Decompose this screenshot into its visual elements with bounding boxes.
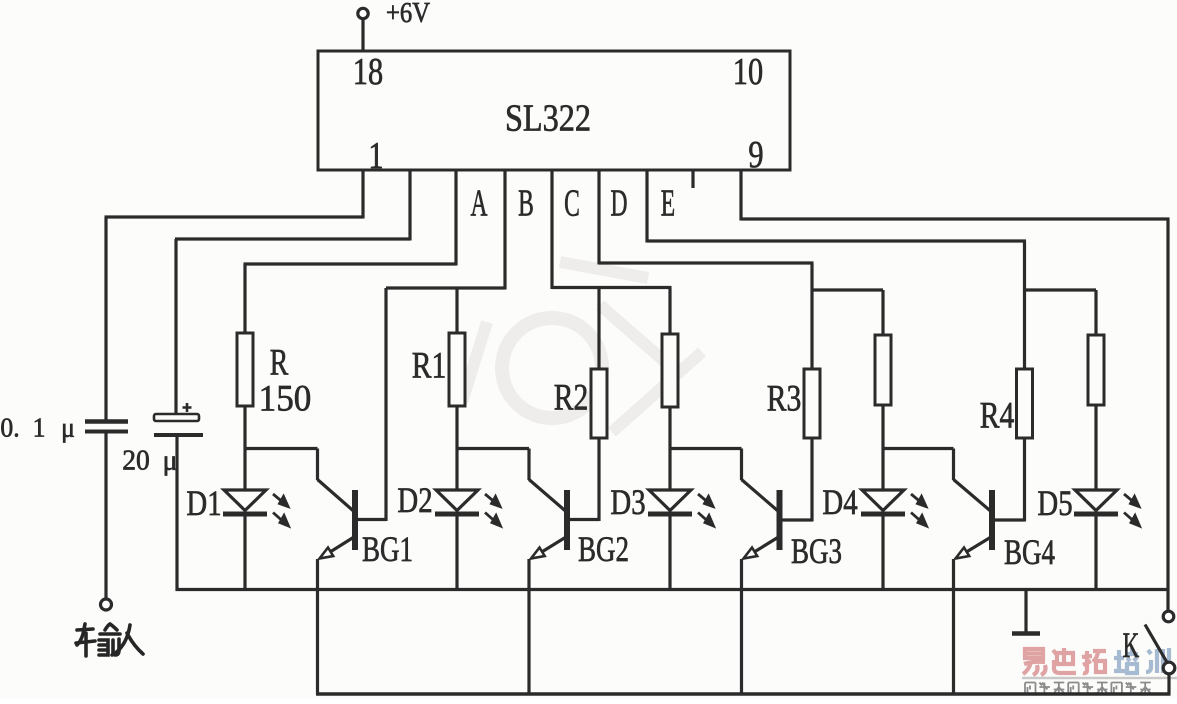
svg-text:0.: 0. — [0, 413, 19, 443]
transistor BG3 base wire — [783, 518, 813, 521]
wire R bottom to node — [243, 406, 246, 491]
switch K blade — [1145, 625, 1167, 662]
capacitor C2 20u bottom plate — [154, 433, 203, 437]
resistor R4 top wire — [1023, 241, 1026, 369]
transistor BG4 — [989, 490, 995, 550]
resistor R6a unlabeled — [1088, 335, 1104, 405]
wire pin9 horizontal right — [741, 217, 1170, 220]
wire R1 bottom to node — [455, 406, 458, 491]
input label 输入 — [76, 624, 143, 656]
capacitor C1 0.1u top plate — [85, 419, 128, 424]
svg-text:R1: R1 — [412, 346, 447, 387]
svg-text:D: D — [610, 182, 627, 224]
wire C1 top — [104, 217, 107, 421]
resistor R5a unlabeled — [875, 335, 891, 405]
wire output2 down — [550, 169, 553, 289]
wire output4 horizontal — [647, 239, 1026, 242]
resistor R1 — [449, 333, 465, 406]
svg-text:BG4: BG4 — [1004, 532, 1055, 572]
svg-text:R2: R2 — [554, 378, 589, 419]
svg-text:BG3: BG3 — [791, 531, 842, 571]
wire output4 down — [645, 169, 648, 243]
wire output3 horizontal — [599, 261, 814, 264]
resistor R1 top wire — [455, 288, 458, 333]
LED D5 — [1075, 490, 1117, 511]
svg-text:18: 18 — [353, 51, 383, 93]
ground — [1024, 590, 1027, 633]
wire pin1 horizontal to C1 — [105, 215, 364, 218]
wire R5a bottom to node — [881, 405, 884, 491]
capacitor C2 20u plus mark — [183, 403, 192, 412]
wire emitter bus — [176, 588, 1170, 591]
resistor R3 — [804, 369, 820, 438]
wire collector branch 4 — [883, 447, 954, 450]
svg-text:1: 1 — [368, 135, 383, 177]
resistor R4a top wire — [668, 288, 671, 335]
wire output1 horizontal — [386, 286, 505, 289]
wire right edge down — [1166, 219, 1169, 612]
switch K upper terminal — [1163, 611, 1174, 622]
wire collector branch 3 — [670, 447, 742, 450]
wire node A horizontal to R — [244, 262, 457, 265]
LED D2 — [436, 490, 478, 511]
svg-text:E: E — [661, 182, 675, 224]
svg-text:K: K — [1123, 625, 1140, 665]
transistor BG4 base wire — [995, 518, 1025, 521]
wire bottom rail — [316, 692, 1171, 695]
svg-text:D2: D2 — [397, 481, 432, 521]
svg-text:1: 1 — [33, 413, 46, 443]
wire pin B down — [408, 169, 411, 241]
LED D1 — [224, 490, 266, 511]
wire D2 cathode down — [455, 516, 458, 591]
svg-text:μ: μ — [163, 445, 178, 477]
resistor R top wire — [243, 264, 246, 333]
wire +6V to IC pin18 — [361, 19, 364, 52]
svg-text:BG1: BG1 — [362, 529, 413, 569]
transistor BG1 base wire — [358, 518, 386, 521]
resistor R 150 — [237, 333, 253, 406]
wire switch to bottom rail — [1167, 674, 1170, 695]
+6V terminal — [358, 8, 368, 18]
watermark slogan — [1025, 683, 1151, 694]
switch K lower terminal — [1163, 662, 1175, 674]
wire pin B horizontal to C2 — [175, 237, 410, 240]
svg-text:D4: D4 — [822, 483, 857, 523]
wire stage4 feed — [812, 288, 883, 291]
wire D1 cathode down — [243, 516, 246, 591]
svg-text:D3: D3 — [610, 483, 645, 523]
wire D3 cathode down — [668, 516, 671, 591]
capacitor C1 0.1u bottom plate — [85, 430, 128, 434]
wire pin E stub — [691, 169, 694, 188]
resistor R3 top wire — [810, 263, 813, 369]
LED D3 — [649, 490, 691, 511]
resistor R4a unlabeled — [662, 334, 678, 407]
svg-text:R3: R3 — [767, 379, 802, 420]
wire pin9 down — [739, 169, 742, 221]
wire pin A down — [454, 169, 457, 266]
wire D4 cathode down — [881, 516, 884, 591]
watermark big text — [1023, 648, 1169, 675]
wire collector branch 1 — [245, 447, 318, 450]
input terminal — [101, 599, 112, 610]
svg-text:μ: μ — [61, 413, 75, 443]
svg-text:A: A — [470, 182, 487, 224]
svg-text:D1: D1 — [186, 484, 221, 524]
wire R4a bottom to node — [668, 407, 671, 491]
wire D5 cathode down — [1094, 516, 1097, 591]
wire stage5 feed — [1025, 288, 1097, 291]
wire output2 horizontal — [552, 286, 672, 289]
transistor BG1 — [352, 490, 358, 550]
resistor R2 — [591, 369, 607, 438]
wire R6a bottom to LED — [1094, 405, 1097, 491]
wire output1 down — [503, 169, 506, 290]
svg-text:9: 9 — [748, 134, 763, 176]
svg-text:B: B — [518, 182, 534, 224]
decor faint ghost — [462, 262, 702, 432]
wire C1 bottom — [104, 433, 107, 599]
transistor BG2 — [564, 490, 570, 550]
svg-text:D5: D5 — [1037, 484, 1072, 524]
IC U1 SL322 box — [318, 51, 790, 170]
capacitor C2 20u top plate — [154, 414, 199, 421]
resistor R2 top wire — [597, 288, 600, 370]
svg-text:20: 20 — [122, 445, 150, 477]
transistor BG2 base wire — [570, 518, 599, 521]
wire C2 top — [174, 239, 177, 414]
svg-text:BG2: BG2 — [578, 529, 629, 569]
wire collector branch 2 — [457, 447, 529, 450]
svg-text:C: C — [564, 182, 580, 224]
svg-text:R4: R4 — [980, 396, 1015, 437]
resistor R4 — [1017, 369, 1033, 438]
wire C2 bottom — [175, 437, 178, 592]
svg-text:+6V: +6V — [386, 0, 430, 28]
svg-text:SL322: SL322 — [505, 97, 591, 139]
wire pin1 down — [361, 169, 364, 219]
svg-text:10: 10 — [733, 51, 763, 93]
wire output3 down — [597, 169, 600, 265]
LED D4 — [862, 490, 904, 511]
svg-text:150: 150 — [259, 377, 312, 418]
transistor BG3 — [777, 490, 783, 550]
watermark underline — [1022, 677, 1177, 679]
